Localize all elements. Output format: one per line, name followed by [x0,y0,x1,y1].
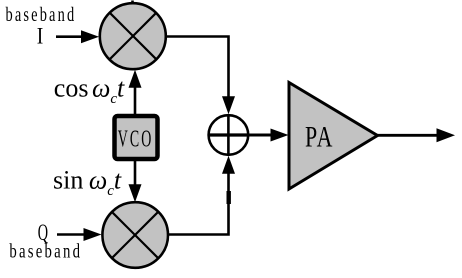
svg-text:VCO: VCO [118,127,153,153]
svg-text:baseband: baseband [6,3,77,26]
svg-text:baseband: baseband [9,239,82,262]
svg-text:PA: PA [305,120,334,153]
svg-text:I: I [37,23,44,49]
